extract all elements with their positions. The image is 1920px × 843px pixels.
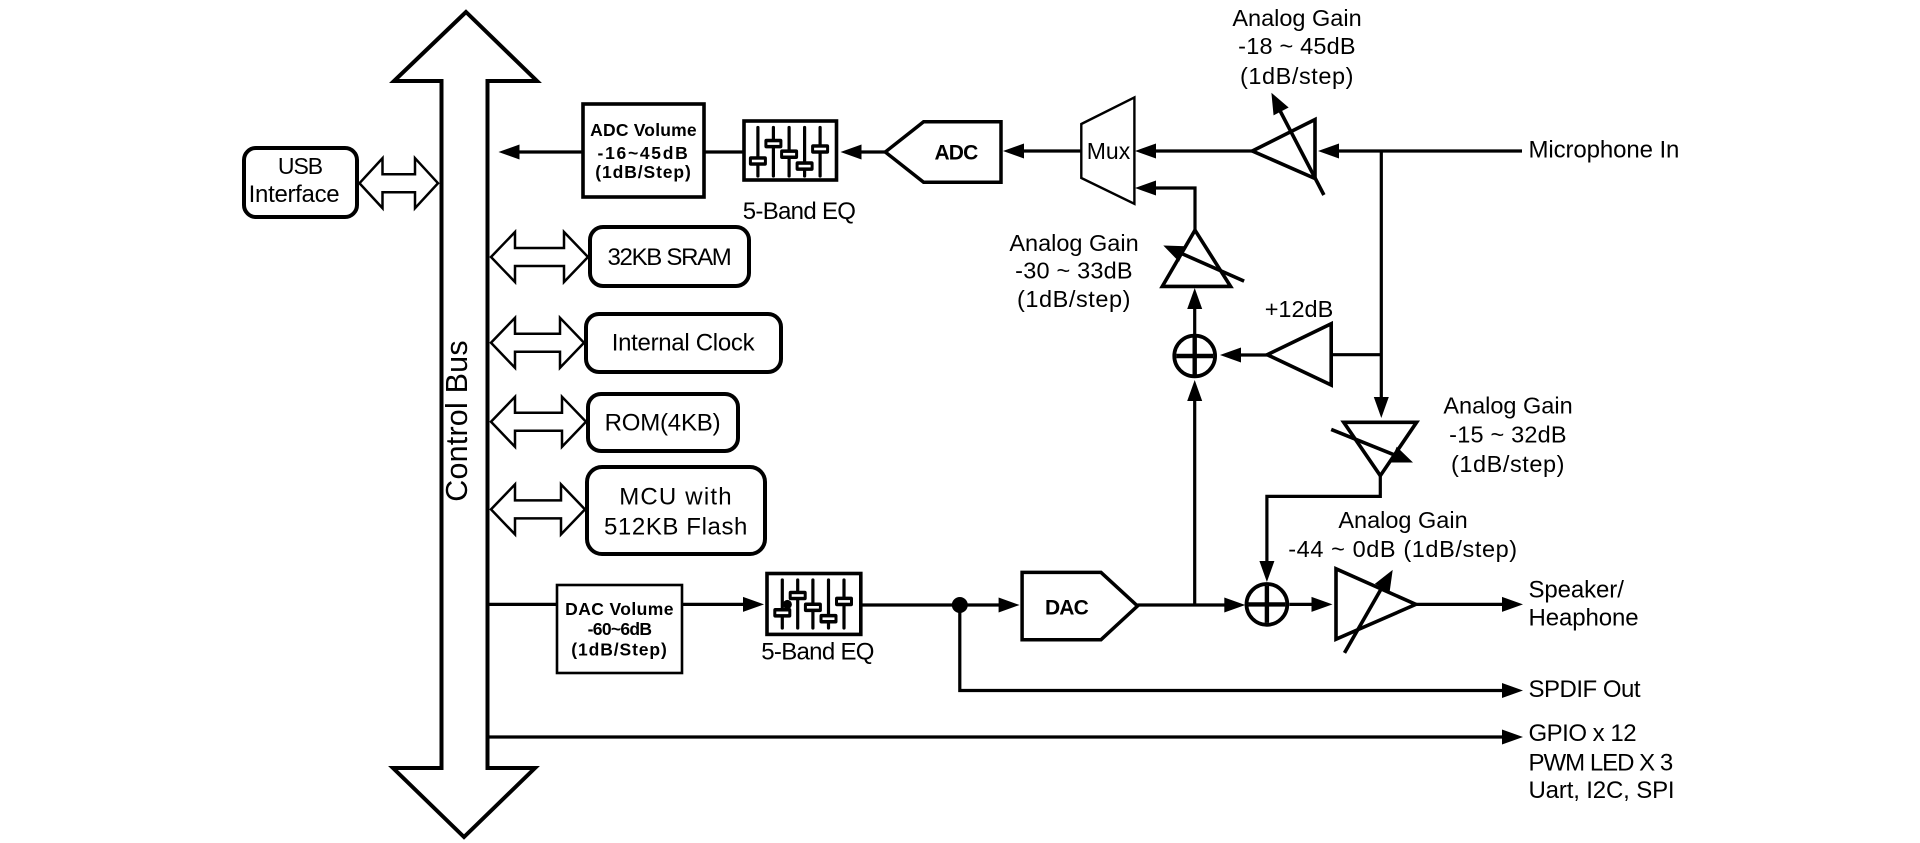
svg-text:Speaker/: Speaker/ xyxy=(1529,577,1625,604)
wire Mux to ADC with arrowhead xyxy=(1003,144,1081,159)
svg-text:5-Band EQ: 5-Band EQ xyxy=(761,639,873,666)
wire DAC output to summing node 2 with arrowhead xyxy=(1138,598,1246,613)
svg-text:Interface: Interface xyxy=(249,181,340,208)
svg-text:MCU with: MCU with xyxy=(619,484,733,511)
wire microphone line into amp with arrowhead xyxy=(1318,144,1522,159)
wire from DAC output line up into summing node 1 with arrowhead xyxy=(1187,380,1202,605)
5-band EQ block (ADC path) xyxy=(743,121,855,225)
svg-text:Internal Clock: Internal Clock xyxy=(612,330,756,357)
svg-text:(1dB/step): (1dB/step) xyxy=(1451,451,1565,477)
label analog gain -44~0dB xyxy=(1288,507,1518,562)
svg-text:Uart, I2C, SPI: Uart, I2C, SPI xyxy=(1529,777,1675,804)
svg-text:-60~6dB: -60~6dB xyxy=(588,619,652,639)
wire branch line to +12dB input xyxy=(1331,353,1381,356)
control bus (vertical double block arrow) xyxy=(393,12,537,837)
svg-text:ADC Volume: ADC Volume xyxy=(590,120,697,140)
wire DAC Volume to EQ (DAC path) with arrowhead xyxy=(682,597,764,612)
wire summing node 2 to speaker amp with arrowhead xyxy=(1289,597,1332,612)
+12dB amp (pointing left) xyxy=(1265,296,1334,385)
analog gain amp -15~32dB (pointing down) xyxy=(1331,422,1416,475)
wire +12dB output into summing node 1 with arrowhead xyxy=(1220,348,1267,363)
Internal Clock box xyxy=(586,314,781,372)
svg-text:512KB Flash: 512KB Flash xyxy=(604,514,748,541)
svg-text:Heaphone: Heaphone xyxy=(1529,605,1639,632)
speaker amp (variable, pointing right) xyxy=(1336,566,1416,653)
arrowhead down into -15~32 amp xyxy=(1374,397,1389,418)
wire EQ to DAC with arrowhead and junction node xyxy=(861,598,1020,613)
wire amp apex up and left into Mux input 2 with arrowhead xyxy=(1135,181,1195,231)
wire speaker amp output with arrowhead xyxy=(1416,597,1523,612)
svg-text:(1dB/Step): (1dB/Step) xyxy=(571,639,668,659)
bidirectional arrow bus to clock xyxy=(491,318,584,368)
svg-text:-30 ~ 33dB: -30 ~ 33dB xyxy=(1015,257,1133,283)
Mux block (trapezoid) xyxy=(1081,97,1134,203)
wire ADC Volume to control bus with arrowhead xyxy=(499,145,584,160)
bidirectional arrow USB to bus xyxy=(360,158,439,208)
svg-text:ROM(4KB): ROM(4KB) xyxy=(605,410,721,437)
svg-text:Microphone In: Microphone In xyxy=(1529,137,1680,164)
svg-text:-16~45dB: -16~45dB xyxy=(598,143,690,163)
wire ADC to EQ with arrowhead into EQ xyxy=(841,145,887,160)
svg-text:(1dB/step): (1dB/step) xyxy=(1240,63,1354,89)
label analog gain -18~45dB xyxy=(1232,5,1361,89)
32KB SRAM box xyxy=(590,227,749,286)
junction node dot xyxy=(952,597,968,613)
svg-text:Analog Gain: Analog Gain xyxy=(1338,507,1467,533)
svg-text:SPDIF Out: SPDIF Out xyxy=(1529,676,1641,703)
svg-text:(1dB/Step): (1dB/Step) xyxy=(595,162,692,182)
label Speaker/Heaphone xyxy=(1529,577,1639,632)
label analog gain -15~32dB xyxy=(1443,392,1572,477)
wire amp to Mux input 1 with arrowhead xyxy=(1135,144,1252,159)
svg-text:Analog Gain: Analog Gain xyxy=(1232,5,1361,31)
svg-text:(1dB/step): (1dB/step) xyxy=(1017,286,1131,312)
bidirectional arrow bus to SRAM xyxy=(491,232,588,282)
svg-text:+12dB: +12dB xyxy=(1265,296,1334,322)
wire control bus to DAC Volume xyxy=(490,603,558,606)
wire vertical branch from mic line down xyxy=(1380,151,1383,400)
bidirectional arrow bus to MCU xyxy=(491,484,585,534)
ADC block (pentagon) xyxy=(885,122,1001,183)
svg-text:Analog Gain: Analog Gain xyxy=(1443,392,1572,418)
svg-text:ADC: ADC xyxy=(934,142,978,165)
wire GPIO from control bus right with arrowhead xyxy=(490,730,1524,745)
svg-text:Control Bus: Control Bus xyxy=(440,340,474,502)
summing node 2 (circle with plus) xyxy=(1247,584,1288,625)
label GPIO / PWM / Uart xyxy=(1529,720,1675,804)
svg-text:GPIO x 12: GPIO x 12 xyxy=(1529,720,1637,747)
MCU with 512KB Flash box xyxy=(587,467,765,554)
svg-text:DAC: DAC xyxy=(1045,597,1089,620)
label Mux second input path: amp -30~33dB pointing up xyxy=(1160,230,1244,286)
svg-text:-44 ~ 0dB (1dB/step): -44 ~ 0dB (1dB/step) xyxy=(1288,536,1518,562)
5-band EQ block (DAC path) xyxy=(761,574,873,666)
DAC Volume box xyxy=(557,585,682,673)
svg-text:32KB SRAM: 32KB SRAM xyxy=(607,244,730,271)
svg-text:Mux: Mux xyxy=(1087,138,1131,164)
svg-text:PWM LED X 3: PWM LED X 3 xyxy=(1529,750,1673,777)
svg-text:USB: USB xyxy=(278,153,323,179)
ADC Volume box xyxy=(583,104,704,197)
label analog gain -30~33dB xyxy=(1009,230,1138,312)
svg-text:Analog Gain: Analog Gain xyxy=(1009,230,1138,256)
wire ADC Volume to EQ (ADC path) xyxy=(704,150,744,153)
DAC block (pentagon) xyxy=(1022,572,1137,639)
svg-text:-15 ~ 32dB: -15 ~ 32dB xyxy=(1449,421,1567,447)
ROM(4KB) box xyxy=(588,394,738,451)
bidirectional arrow bus to ROM xyxy=(491,397,586,447)
USB interface box xyxy=(244,148,357,217)
wire -15~32 amp output elbow down into summing node 2 with arrowhead xyxy=(1259,476,1380,582)
wire summing node 1 up into amp base with arrowhead xyxy=(1187,288,1202,334)
svg-text:5-Band EQ: 5-Band EQ xyxy=(743,198,855,225)
analog gain amp (mic input, variable, pointing left) xyxy=(1252,89,1324,195)
svg-text:-18 ~ 45dB: -18 ~ 45dB xyxy=(1238,33,1356,59)
svg-text:DAC Volume: DAC Volume xyxy=(565,599,674,619)
wire SPDIF from junction dot down and right with arrowhead xyxy=(960,605,1523,698)
summing node 1 (circle with plus) xyxy=(1174,336,1215,377)
